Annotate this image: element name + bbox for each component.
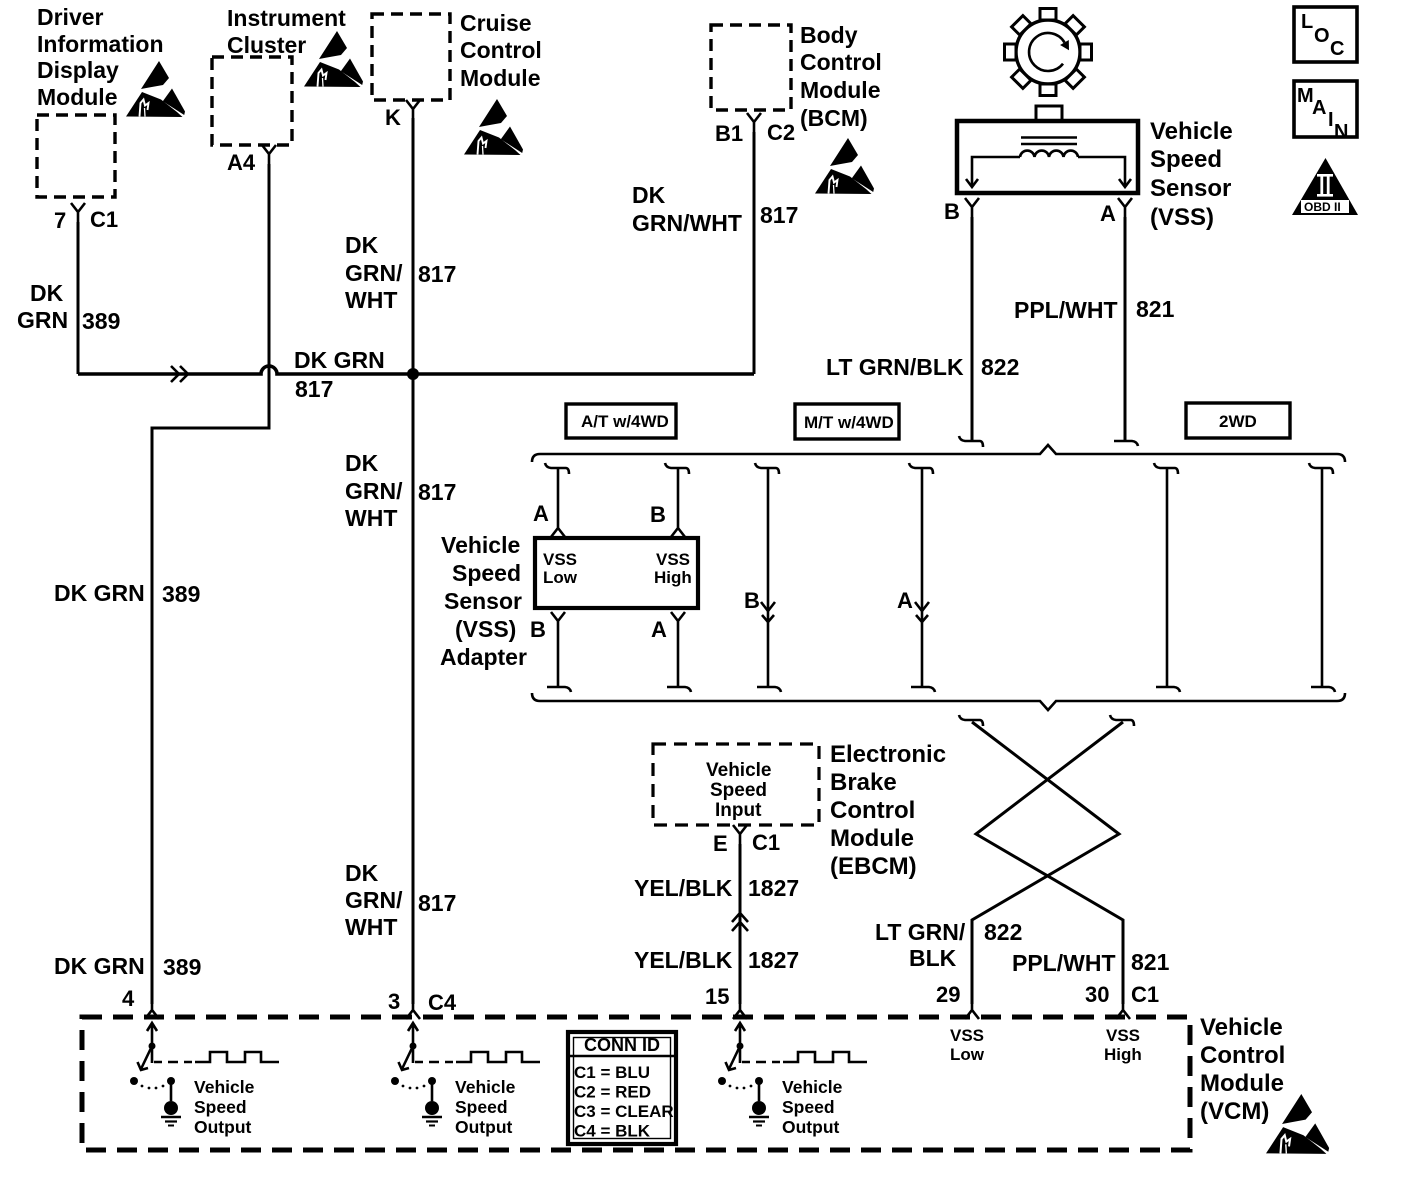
- svg-text:822: 822: [981, 354, 1019, 380]
- svg-text:(VSS): (VSS): [1150, 204, 1214, 231]
- svg-text:GRN/: GRN/: [345, 887, 403, 913]
- svg-text:C2 = RED: C2 = RED: [574, 1083, 651, 1102]
- option box: A/T w/4WD: [566, 404, 676, 438]
- svg-text:DK GRN: DK GRN: [54, 953, 145, 979]
- pin A4 connector (Instrument Cluster): [262, 145, 276, 164]
- connector end (VSS B wire): [959, 436, 983, 447]
- wire: DK GRN/WHT 817 from cruise K down to VCM pin 3: [412, 118, 415, 1004]
- crossover wire from VSS High side: [1110, 715, 1134, 726]
- svg-text:Body: Body: [800, 22, 858, 48]
- vehicle speed output switch (pin 4): [130, 1023, 279, 1137]
- option column 2 lower: adapter pin A wire: [671, 612, 685, 631]
- inline connector chevrons on DK GRN wire: [171, 366, 188, 382]
- svg-text:Control: Control: [830, 797, 915, 824]
- svg-text:LT GRN/BLK: LT GRN/BLK: [826, 354, 964, 380]
- junction node at cruise wire: [407, 368, 419, 380]
- module: Driver Information Display Module (dashed box): [37, 115, 115, 197]
- svg-text:YEL/BLK: YEL/BLK: [634, 947, 733, 973]
- pin A connector (VSS): [1118, 198, 1132, 217]
- svg-text:L: L: [1301, 11, 1313, 33]
- ESD symbol (VCM): [1266, 1094, 1329, 1154]
- svg-text:High: High: [1104, 1045, 1142, 1064]
- svg-text:C: C: [1330, 38, 1344, 60]
- VSS internal leads with arrows: [972, 157, 1125, 186]
- svg-text:Speed: Speed: [1150, 146, 1222, 173]
- ESD symbol (DIDM): [126, 61, 185, 117]
- svg-text:VSS: VSS: [656, 550, 690, 569]
- svg-text:2WD: 2WD: [1219, 412, 1257, 431]
- svg-text:C4 = BLK: C4 = BLK: [574, 1122, 651, 1141]
- pin E C1 connector (EBCM): [733, 825, 747, 844]
- svg-text:822: 822: [984, 919, 1022, 945]
- svg-text:Adapter: Adapter: [440, 644, 527, 670]
- MAIN reference icon: [1294, 81, 1357, 137]
- ESD symbol (Instrument Cluster): [304, 31, 363, 87]
- svg-text:WHT: WHT: [345, 505, 397, 531]
- svg-text:Cruise: Cruise: [460, 10, 532, 36]
- pin 4 connector (VCM): [145, 1000, 159, 1019]
- svg-text:BLK: BLK: [909, 945, 957, 971]
- option column 2: wire to VSS adapter pin B: [665, 463, 689, 474]
- svg-text:Display: Display: [37, 57, 119, 83]
- svg-text:DK GRN: DK GRN: [294, 347, 385, 373]
- vehicle speed output switch (pin 15): [718, 1023, 867, 1137]
- svg-text:B1: B1: [715, 121, 743, 146]
- svg-text:O: O: [1314, 25, 1330, 47]
- VSS sensor body box: [957, 121, 1138, 193]
- svg-text:Electronic: Electronic: [830, 741, 946, 768]
- svg-text:DK: DK: [345, 232, 379, 258]
- svg-text:Control: Control: [460, 37, 542, 63]
- svg-text:7: 7: [54, 208, 66, 233]
- svg-text:YEL/BLK: YEL/BLK: [634, 875, 733, 901]
- svg-text:(BCM): (BCM): [800, 105, 868, 131]
- svg-text:GRN: GRN: [17, 307, 68, 333]
- svg-text:K: K: [385, 105, 401, 130]
- svg-text:C1 = BLU: C1 = BLU: [574, 1063, 650, 1082]
- svg-text:E: E: [713, 831, 728, 856]
- svg-text:Cluster: Cluster: [227, 32, 306, 58]
- svg-text:B: B: [744, 588, 760, 613]
- svg-text:15: 15: [705, 984, 729, 1009]
- wire: DK GRN 389 from DIDM pin 7: [77, 222, 80, 374]
- svg-text:CONN ID: CONN ID: [584, 1035, 660, 1055]
- svg-text:821: 821: [1136, 296, 1175, 322]
- svg-text:C1: C1: [752, 830, 780, 855]
- svg-text:817: 817: [295, 376, 333, 402]
- svg-text:N: N: [1334, 121, 1348, 143]
- svg-text:817: 817: [418, 261, 456, 287]
- CONN ID table: [568, 1032, 676, 1144]
- svg-text:30: 30: [1085, 982, 1109, 1007]
- svg-text:(VCM): (VCM): [1200, 1098, 1269, 1125]
- module: Instrument Cluster (dashed box): [212, 57, 292, 145]
- VSS magnetic core lines: [1021, 138, 1077, 145]
- svg-text:Module: Module: [1200, 1070, 1284, 1097]
- svg-text:C3 = CLEAR: C3 = CLEAR: [574, 1102, 674, 1121]
- svg-text:Vehicle: Vehicle: [1200, 1014, 1283, 1041]
- svg-text:High: High: [654, 568, 692, 587]
- module: Body Control Module BCM (dashed box): [711, 25, 791, 110]
- option column 5: 2WD wire: [1154, 463, 1178, 474]
- wire: PPL/WHT 821 from VSS pin A: [1124, 217, 1127, 441]
- pin 3 C4 connector (VCM): [406, 1000, 420, 1019]
- svg-text:1827: 1827: [748, 947, 799, 973]
- svg-text:B: B: [530, 617, 546, 642]
- option column 3: M/T wire B: [755, 463, 779, 474]
- svg-text:Module: Module: [460, 65, 541, 91]
- option column 1 lower: adapter pin B wire: [551, 612, 565, 631]
- svg-text:I: I: [1328, 109, 1334, 131]
- pin 30 C1 connector (VCM): [1116, 1000, 1130, 1019]
- svg-text:B: B: [650, 502, 666, 527]
- svg-text:Control: Control: [1200, 1042, 1285, 1069]
- svg-text:Vehicle: Vehicle: [706, 760, 772, 781]
- wire: DK GRN 389 from instrument cluster A4 down-left to VCM pin 4: [152, 164, 269, 1004]
- svg-text:Sensor: Sensor: [444, 588, 522, 614]
- option box: 2WD: [1186, 403, 1290, 438]
- crossover wire from VSS Low side: [959, 715, 983, 726]
- VSS adapter box: [535, 538, 698, 608]
- svg-text:DK: DK: [30, 280, 64, 306]
- svg-text:VSS: VSS: [1106, 1026, 1140, 1045]
- VSS sensor stub: [1036, 106, 1062, 122]
- pin 7 C1 connector (DIDM): [71, 203, 85, 222]
- svg-text:A: A: [897, 588, 913, 613]
- svg-text:C1: C1: [90, 207, 118, 232]
- svg-text:Low: Low: [950, 1045, 985, 1064]
- connector end (VSS A wire): [1114, 441, 1138, 446]
- svg-text:GRN/: GRN/: [345, 260, 403, 286]
- svg-text:29: 29: [936, 982, 960, 1007]
- svg-text:A: A: [1100, 201, 1116, 226]
- ESD symbol (Cruise Control Module): [464, 99, 523, 155]
- pin B1 C2 connector (BCM): [747, 113, 761, 132]
- svg-text:Vehicle: Vehicle: [1150, 118, 1233, 145]
- LOC reference icon: [1294, 7, 1357, 62]
- top option brace: [532, 445, 1345, 462]
- svg-text:VSS: VSS: [950, 1026, 984, 1045]
- pin B connector (VSS): [965, 198, 979, 217]
- svg-text:Speed: Speed: [710, 780, 767, 801]
- svg-text:DK GRN: DK GRN: [54, 580, 145, 606]
- svg-text:(VSS): (VSS): [455, 616, 516, 642]
- pin K connector (Cruise Control Module): [406, 100, 420, 119]
- svg-text:WHT: WHT: [345, 287, 397, 313]
- module: Vehicle Control Module VCM (dashed box): [82, 1017, 1190, 1150]
- svg-text:A: A: [1312, 97, 1326, 119]
- svg-text:1827: 1827: [748, 875, 799, 901]
- vehicle speed output switch (pin 3): [391, 1023, 540, 1137]
- svg-text:Sensor: Sensor: [1150, 175, 1231, 202]
- ESD symbol (BCM): [815, 138, 874, 194]
- svg-text:DK: DK: [345, 860, 379, 886]
- svg-text:817: 817: [760, 202, 798, 228]
- option column 4: M/T wire A: [909, 463, 933, 474]
- svg-text:OBD II: OBD II: [1304, 200, 1341, 214]
- svg-text:Control: Control: [800, 49, 882, 75]
- svg-text:817: 817: [418, 479, 456, 505]
- vehicle speed sensor gear icon: [1005, 9, 1092, 96]
- wire: DK GRN 817 horizontal run with hop over A4 wire: [78, 366, 754, 374]
- svg-text:A/T w/4WD: A/T w/4WD: [581, 412, 669, 431]
- svg-text:817: 817: [418, 890, 456, 916]
- svg-text:WHT: WHT: [345, 914, 397, 940]
- svg-text:Vehicle: Vehicle: [441, 532, 520, 558]
- VSS coil winding: [1020, 151, 1078, 157]
- svg-text:(EBCM): (EBCM): [830, 853, 917, 880]
- svg-text:Speed: Speed: [452, 560, 521, 586]
- svg-text:A: A: [533, 501, 549, 526]
- svg-text:Low: Low: [543, 568, 578, 587]
- svg-text:Instrument: Instrument: [227, 5, 346, 31]
- svg-text:Information: Information: [37, 31, 164, 57]
- svg-text:Brake: Brake: [830, 769, 897, 796]
- svg-text:DK: DK: [632, 182, 666, 208]
- svg-text:LT GRN/: LT GRN/: [875, 919, 966, 945]
- svg-text:Driver: Driver: [37, 4, 104, 30]
- svg-text:B: B: [944, 199, 960, 224]
- svg-text:M/T w/4WD: M/T w/4WD: [804, 413, 894, 432]
- svg-text:PPL/WHT: PPL/WHT: [1012, 950, 1116, 976]
- svg-text:Module: Module: [830, 825, 914, 852]
- option column 1: wire to VSS adapter pin A: [545, 463, 569, 474]
- option box: M/T w/4WD: [795, 404, 899, 439]
- svg-text:3: 3: [388, 989, 400, 1014]
- wire: LT GRN/BLK 822 from VSS pin B: [971, 217, 974, 441]
- svg-text:389: 389: [163, 954, 201, 980]
- svg-text:GRN/: GRN/: [345, 478, 403, 504]
- module: EBCM Vehicle Speed Input (dashed box): [653, 744, 819, 825]
- svg-text:A4: A4: [227, 150, 256, 175]
- pin 29 connector (VCM): [965, 1000, 979, 1019]
- svg-text:Input: Input: [715, 800, 762, 821]
- svg-text:PPL/WHT: PPL/WHT: [1014, 297, 1118, 323]
- module: Cruise Control Module (dashed box): [372, 14, 450, 100]
- svg-text:Module: Module: [37, 84, 118, 110]
- svg-text:C1: C1: [1131, 982, 1159, 1007]
- svg-text:A: A: [651, 617, 667, 642]
- svg-text:821: 821: [1131, 949, 1170, 975]
- svg-text:389: 389: [162, 581, 200, 607]
- svg-text:VSS: VSS: [543, 550, 577, 569]
- svg-text:DK: DK: [345, 450, 379, 476]
- option column 6: 2WD wire: [1309, 463, 1333, 474]
- svg-text:C2: C2: [767, 120, 795, 145]
- inline connector chevrons on YEL/BLK wire: [732, 913, 748, 931]
- svg-text:4: 4: [122, 986, 135, 1011]
- wire: YEL/BLK 1827 from EBCM to VCM pin 15: [739, 844, 742, 1004]
- svg-text:Module: Module: [800, 77, 881, 103]
- svg-text:GRN/WHT: GRN/WHT: [632, 210, 742, 236]
- svg-text:C4: C4: [428, 990, 457, 1015]
- svg-text:389: 389: [82, 308, 120, 334]
- wire: DK GRN/WHT 817 from BCM C2 down to junction: [753, 132, 756, 374]
- pin 15 connector (VCM): [733, 1000, 747, 1019]
- OBD II triangle icon: [1292, 158, 1358, 215]
- bottom option brace: [532, 693, 1345, 710]
